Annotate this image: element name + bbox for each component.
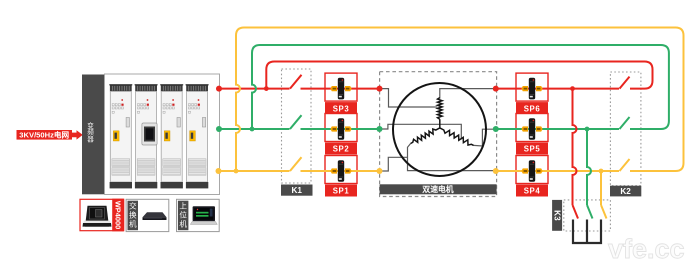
cabinet panel 3 [161,85,183,92]
motor label bar [380,184,497,194]
motor wire: V2 tap (left green staircase) [380,124,461,139]
switch K2 phase A blade [620,77,630,89]
breaker K1 label [281,185,313,196]
motor dashed box [380,72,497,197]
svg-text:机: 机 [179,218,187,228]
node B2 (K3 tap phase B) [585,127,590,132]
wire phase C drop to K3 [600,171,602,205]
motor wire: U1 end to right red terminal [440,89,496,99]
svg-text:K2: K2 [620,187,631,196]
host PC laptop image [193,206,215,221]
svg-text:SP3: SP3 [333,104,350,113]
motor terminal W1 [493,168,499,174]
switch K1 phase B blade [290,115,302,129]
svg-text:SP5: SP5 [524,145,541,154]
cabinet panel 1 [110,85,132,92]
switch K3 phase C blade [601,205,607,219]
converter terminal A [216,86,222,92]
breaker K1 dashed box [282,69,312,183]
switch K3 phase B blade [587,205,593,219]
cabinet panel 2 [135,85,157,92]
cabinet panel 2 HMI screen [142,123,157,145]
converter side bar [82,75,104,195]
switch K2 phase C blade [620,159,630,171]
wire phase B from converter to K1 [219,128,290,130]
ethernet switch image [143,212,167,217]
sensor SP6 icon [521,86,528,91]
motor winding star stem [439,119,441,128]
wire phase C return loop (hops over phases A,B) [236,28,684,172]
wire phase A return loop [266,62,652,89]
switch K1 phase C blade [290,157,302,171]
wire phase C from converter to K1 [219,170,290,172]
motor winding phase U (top zigzag) [438,98,443,120]
contactor K3 label [552,200,562,231]
motor wire: U2 tap (left red staircase) [380,89,438,107]
svg-text:K1: K1 [291,186,302,195]
svg-text:机: 机 [129,218,137,228]
contactor K2 dashed box [610,72,641,186]
wire phase A from converter to K1 [219,88,290,90]
cabinet panel 4 [186,85,208,92]
wire phase C motor to K2 [496,170,619,172]
sensor SP6 box [516,73,548,101]
star shorting link [573,220,601,244]
sensor SP4 icon [521,168,528,173]
contactor K3 dashed box [564,200,611,231]
switch K3 phase A blade [573,205,579,219]
sensor SP1 icon [330,168,337,173]
wire phase A from K1 to motor [301,88,380,90]
label 3KV/50Hz grid [17,130,73,140]
node A1 (loop tap phase A) [264,86,269,91]
motor winding phase V (lower-right zigzag) [440,128,474,145]
svg-text:SP6: SP6 [524,104,541,113]
sensor SP1 box [325,156,357,184]
motor circle [393,83,486,176]
motor terminal W2 [377,168,383,174]
svg-text:交: 交 [129,200,137,210]
sensor SP4 box [516,156,548,184]
wire phase B drop to K3 (hop over C) [587,129,591,205]
sensor SP2 icon [330,126,337,131]
svg-text:SP2: SP2 [333,145,350,154]
wire phase B motor to K2 [496,128,619,130]
node C2 (K3 tap phase C) [599,169,604,174]
svg-text:vfe.cc: vfe.cc [608,234,685,264]
WP4000 analyzer box [80,199,124,230]
svg-text:WP4000: WP4000 [114,201,123,229]
WP4000 analyzer image [85,206,109,227]
switch K1 phase A blade [290,75,302,89]
contactor K2 label [610,186,641,197]
svg-text:3KV/50Hz电网: 3KV/50Hz电网 [19,130,69,140]
wire phase A motor to K2 [496,88,619,90]
sensor SP5 icon [521,126,528,131]
svg-text:双速电机: 双速电机 [422,184,453,194]
sensor SP2 box [325,114,357,142]
svg-text:SP4: SP4 [524,187,541,196]
cabinet frame [105,74,220,195]
wire phase C from K1 to motor [301,170,380,172]
motor wire: W1 end to right yellow terminal [408,144,496,171]
motor terminal V1 [493,126,499,132]
motor winding phase W (lower-left zigzag) [411,128,440,144]
node C1 (loop tap phase C) [234,169,239,174]
arrow into source [72,130,83,139]
sensor SP3 icon [330,86,337,91]
svg-text:变: 变 [87,121,94,130]
host PC box [177,199,220,231]
svg-text:换: 换 [129,209,137,219]
motor wire: V1 end to right green terminal [474,129,496,146]
svg-text:频: 频 [87,128,94,137]
wire phase A drop to K3 (hops over B,C) [573,89,577,205]
converter terminal C [216,168,222,174]
switch K2 phase B blade [620,117,630,129]
sensor SP5 box [516,114,548,142]
sensor SP3 box [325,73,357,101]
ethernet switch box [126,199,169,231]
svg-text:器: 器 [87,135,94,143]
svg-text:上: 上 [179,201,187,210]
motor terminal U2 [377,86,383,92]
motor terminal U1 [493,86,499,92]
svg-text:K3: K3 [552,210,561,221]
node B1 (loop tap phase B) [250,127,255,132]
motor terminal V2 [377,126,383,132]
wire phase B from K1 to motor [301,128,380,130]
node A2 (K3 tap phase A) [570,86,575,91]
svg-text:位: 位 [179,209,187,219]
wire phase B return loop (hop over phase A) [252,45,669,129]
svg-text:SP1: SP1 [333,187,350,196]
converter terminal B [216,126,222,132]
motor wire: W2 tap (left yellow staircase) [380,157,408,171]
